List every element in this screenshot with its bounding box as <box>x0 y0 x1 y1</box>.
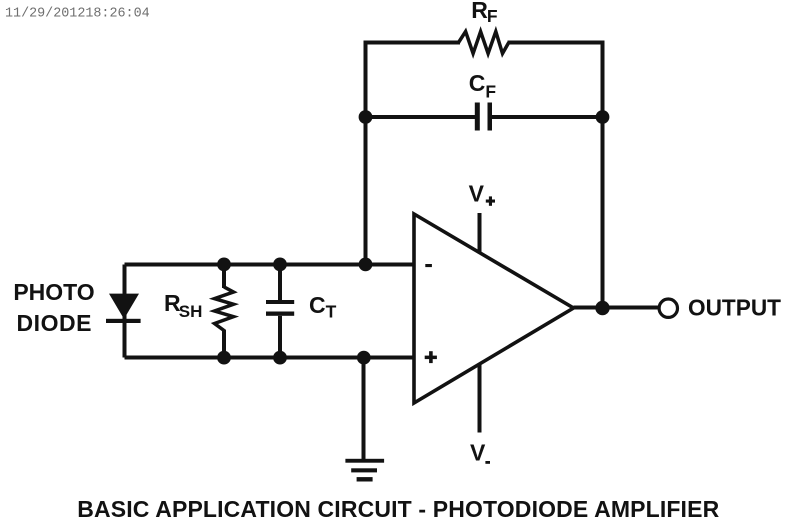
svg-text:V: V <box>469 181 485 207</box>
wire output <box>574 306 660 310</box>
junction dot CT bottom <box>273 351 287 365</box>
op-amp U1 <box>414 214 574 403</box>
svg-text:DIODE: DIODE <box>17 310 92 336</box>
wire non-inverting input <box>125 356 415 360</box>
wire photodiode branch <box>123 265 127 358</box>
label V+ <box>469 181 495 207</box>
wire ground stem <box>362 358 366 462</box>
label PHOTO DIODE <box>13 279 94 336</box>
capacitor CF <box>475 103 492 131</box>
wire V+ stem <box>478 213 482 253</box>
svg-text:11/29/201218:26:04: 11/29/201218:26:04 <box>5 7 150 22</box>
wire V- stem <box>478 363 482 433</box>
junction dot ground node <box>357 351 371 365</box>
wire feedback top-left <box>366 43 461 265</box>
svg-text:OUTPUT: OUTPUT <box>688 295 782 321</box>
wire CF left <box>366 115 476 119</box>
junction dot CT top <box>273 258 287 272</box>
wire CF right <box>492 115 603 119</box>
ground <box>345 459 384 482</box>
photodiode D1 <box>106 294 141 323</box>
junction dot output node <box>595 301 609 315</box>
svg-text:V: V <box>470 440 486 466</box>
resistor RSH <box>222 265 226 289</box>
junction dot CF right <box>596 110 610 124</box>
junction dot RSH top <box>217 258 231 272</box>
junction dot RSH bottom <box>217 351 231 365</box>
junction dot inverting node <box>359 258 373 272</box>
svg-text:PHOTO: PHOTO <box>13 279 94 305</box>
capacitor CT <box>266 265 294 358</box>
wire inverting input <box>125 263 415 267</box>
svg-text:BASIC APPLICATION CIRCUIT - PH: BASIC APPLICATION CIRCUIT - PHOTODIODE A… <box>77 496 719 522</box>
label V- <box>470 440 490 466</box>
resistor RF <box>459 32 509 54</box>
output terminal <box>659 299 677 317</box>
junction dot CF left <box>359 110 373 124</box>
wire feedback top-right <box>508 43 603 309</box>
